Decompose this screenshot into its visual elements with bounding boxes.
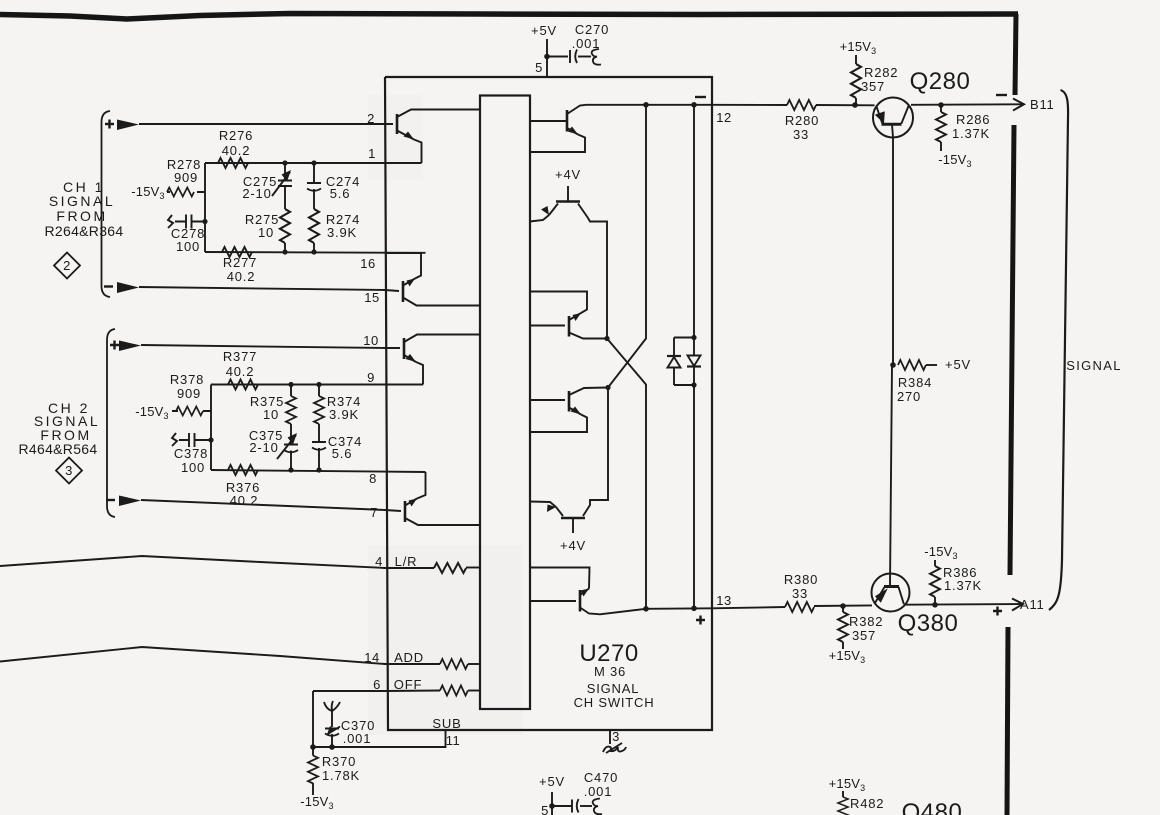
svg-text:Q280: Q280 [910, 68, 971, 95]
svg-text:R286: R286 [956, 112, 990, 127]
svg-text:5.6: 5.6 [332, 446, 352, 461]
svg-text:15: 15 [364, 290, 379, 305]
svg-text:10: 10 [258, 225, 274, 240]
svg-text:2-10: 2-10 [242, 186, 271, 201]
svg-text:.001: .001 [572, 36, 601, 51]
svg-text:C270: C270 [575, 22, 609, 37]
svg-text:Q380: Q380 [898, 610, 959, 637]
svg-text:100: 100 [181, 460, 205, 475]
svg-text:3: 3 [612, 729, 620, 744]
svg-text:+5V: +5V [945, 357, 971, 372]
svg-text:16: 16 [360, 256, 375, 271]
svg-text:33: 33 [792, 586, 808, 601]
svg-text:+4V: +4V [555, 167, 581, 182]
svg-text:5.6: 5.6 [330, 186, 350, 201]
svg-text:+15V3: +15V3 [829, 648, 866, 665]
svg-text:R378: R378 [170, 372, 204, 387]
svg-text:1.37K: 1.37K [952, 126, 990, 141]
svg-text:13: 13 [716, 593, 731, 608]
svg-text:SIGNAL: SIGNAL [49, 193, 115, 209]
svg-text:R464&R564: R464&R564 [19, 441, 98, 457]
svg-text:SIGNAL: SIGNAL [1066, 358, 1121, 373]
svg-text:R264&R364: R264&R364 [45, 223, 124, 239]
svg-text:.001: .001 [343, 731, 372, 746]
svg-text:SIGNAL: SIGNAL [587, 681, 639, 696]
svg-text:12: 12 [716, 110, 731, 125]
svg-text:ADD: ADD [394, 650, 424, 665]
svg-text:1.78K: 1.78K [322, 768, 360, 783]
svg-text:3: 3 [65, 463, 73, 478]
svg-text:R380: R380 [784, 572, 818, 587]
svg-text:10: 10 [363, 333, 378, 348]
svg-text:9: 9 [367, 370, 375, 385]
svg-text:40.2: 40.2 [227, 269, 256, 284]
svg-text:40.2: 40.2 [222, 143, 251, 158]
svg-text:270: 270 [897, 389, 921, 404]
svg-text:CH SWITCH: CH SWITCH [574, 695, 655, 710]
svg-text:R370: R370 [322, 754, 356, 769]
svg-text:R482: R482 [850, 796, 884, 811]
svg-text:R277: R277 [223, 255, 257, 270]
svg-text:14: 14 [364, 650, 379, 665]
svg-text:40.2: 40.2 [226, 364, 255, 379]
svg-text:.001: .001 [584, 784, 613, 799]
svg-text:R377: R377 [223, 349, 257, 364]
svg-text:5: 5 [535, 60, 543, 75]
svg-text:2: 2 [63, 258, 71, 273]
svg-text:7: 7 [370, 505, 378, 520]
svg-text:+5V: +5V [531, 23, 557, 38]
svg-text:11: 11 [446, 733, 461, 748]
svg-text:SUB: SUB [432, 716, 461, 731]
svg-text:B11: B11 [1030, 97, 1055, 112]
svg-text:Q480: Q480 [902, 799, 963, 815]
svg-text:100: 100 [176, 239, 200, 254]
svg-text:3.9K: 3.9K [329, 407, 359, 422]
svg-text:4: 4 [375, 554, 383, 569]
svg-text:6: 6 [373, 677, 381, 692]
svg-text:U270: U270 [579, 640, 638, 667]
svg-text:5: 5 [541, 803, 549, 815]
svg-text:+4V: +4V [560, 538, 586, 553]
svg-text:R282: R282 [864, 65, 898, 80]
svg-text:40.2: 40.2 [230, 493, 259, 508]
svg-text:1.37K: 1.37K [944, 578, 982, 593]
svg-text:33: 33 [793, 127, 809, 142]
svg-text:8: 8 [369, 471, 377, 486]
svg-text:R280: R280 [785, 113, 819, 128]
svg-text:2: 2 [367, 111, 375, 126]
svg-text:C470: C470 [584, 770, 618, 785]
svg-text:C378: C378 [174, 446, 208, 461]
svg-text:A11: A11 [1020, 597, 1045, 612]
svg-text:L/R: L/R [395, 554, 418, 569]
svg-text:+5V: +5V [539, 774, 565, 789]
svg-text:1: 1 [368, 146, 376, 161]
svg-text:357: 357 [861, 79, 885, 94]
svg-text:10: 10 [263, 407, 279, 422]
svg-text:R382: R382 [849, 614, 883, 629]
svg-text:909: 909 [177, 386, 201, 401]
svg-text:2-10: 2-10 [249, 440, 278, 455]
svg-text:3.9K: 3.9K [327, 225, 357, 240]
svg-text:+15V3: +15V3 [840, 39, 877, 56]
svg-text:FROM: FROM [56, 208, 107, 224]
svg-text:OFF: OFF [394, 677, 422, 692]
svg-text:M 36: M 36 [594, 664, 626, 679]
svg-text:909: 909 [174, 170, 198, 185]
svg-text:357: 357 [852, 628, 876, 643]
svg-text:+15V3: +15V3 [829, 776, 866, 793]
svg-text:R276: R276 [219, 128, 253, 143]
svg-text:R384: R384 [898, 375, 932, 390]
